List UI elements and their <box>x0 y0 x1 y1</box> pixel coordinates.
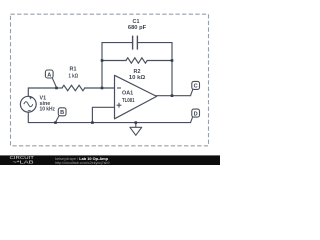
wire feedback left vertical <box>102 43 133 88</box>
svg-text:TL081: TL081 <box>122 98 135 104</box>
svg-text:10 kΩ: 10 kΩ <box>129 75 146 81</box>
svg-text:R1: R1 <box>70 67 77 73</box>
svg-text:C1: C1 <box>133 19 140 25</box>
node B flag <box>56 108 67 123</box>
svg-text:~*LAB: ~*LAB <box>13 159 34 164</box>
junction node B dot <box>54 121 57 124</box>
svg-text:C: C <box>194 84 198 90</box>
node A flag <box>45 70 56 88</box>
junction dot output node <box>171 94 174 97</box>
junction node A dot <box>55 87 58 90</box>
svg-text:A: A <box>47 72 51 78</box>
wire R1 to op-amp inverting input <box>85 87 115 89</box>
junction dot non-inverting to rail <box>91 121 94 124</box>
V1 plus mark <box>28 96 32 110</box>
ground <box>130 123 142 136</box>
svg-text:http://circuitlab.com/c2ekydq7: http://circuitlab.com/c2ekydq7sb9 <box>55 161 110 165</box>
junction dot ground <box>135 121 138 124</box>
svg-text:B: B <box>60 110 64 116</box>
voltage source V1 sine <box>20 96 55 113</box>
svg-text:OA1: OA1 <box>122 91 133 97</box>
wire R2 left lead <box>102 60 126 62</box>
node C flag <box>191 81 200 95</box>
junction dot feedback at inverting input <box>101 87 104 90</box>
svg-text:680 pF: 680 pF <box>128 25 147 31</box>
wire op-amp output to node C <box>156 95 190 97</box>
junction dot R2 left <box>101 59 104 62</box>
wire R2 right lead <box>147 60 172 62</box>
op-amp non-inverting pin mark <box>117 103 122 108</box>
junction dot R2 right <box>171 59 174 62</box>
wire V1 plus terminal to node A row <box>28 88 56 96</box>
wire bottom rail V1 minus to node D <box>28 112 190 122</box>
resistor R2 <box>126 58 147 63</box>
node D flag <box>191 109 200 123</box>
svg-text:1 kΩ: 1 kΩ <box>69 74 79 80</box>
footer bar <box>0 155 220 165</box>
wire C1 right plate to feedback right vertical <box>137 43 172 96</box>
svg-text:R2: R2 <box>134 69 141 75</box>
wire node A to R1 left lead <box>57 87 63 89</box>
wire op-amp non-inverting input down to ground rail <box>92 107 114 122</box>
capacitor C1 <box>133 36 138 49</box>
svg-text:10 kHz: 10 kHz <box>40 106 56 112</box>
op-amp inverting pin mark <box>117 87 121 89</box>
svg-text:D: D <box>194 111 198 117</box>
resistor R1 <box>62 85 85 90</box>
V1 minus mark <box>28 109 31 111</box>
op-amp U1 OA1 TL081 <box>115 75 157 119</box>
